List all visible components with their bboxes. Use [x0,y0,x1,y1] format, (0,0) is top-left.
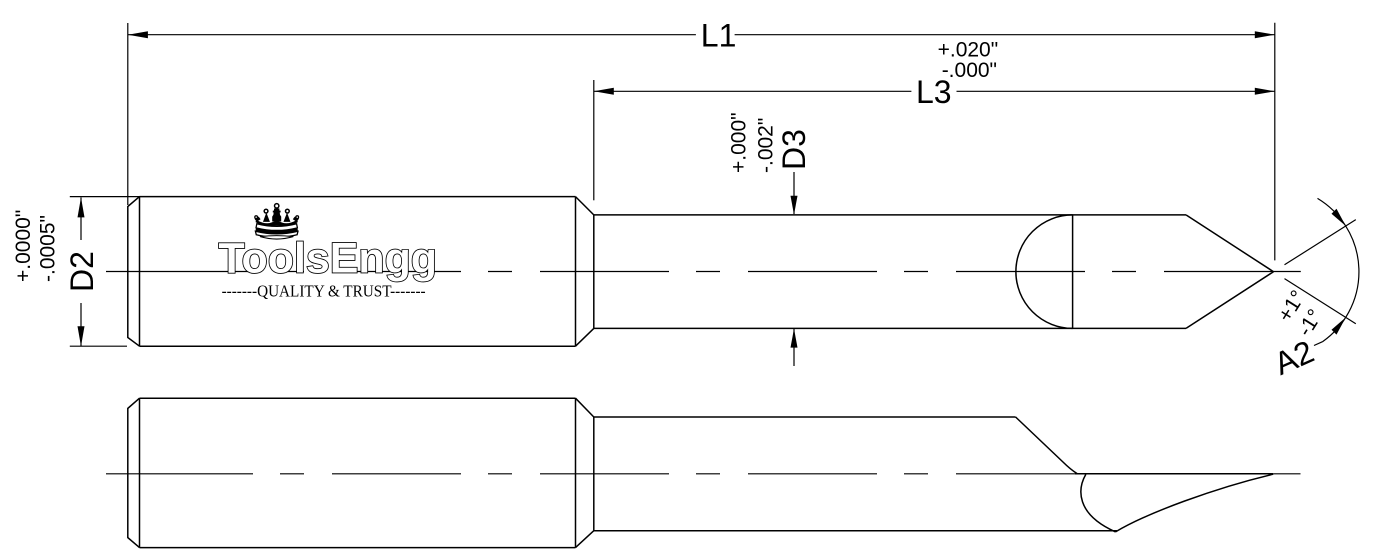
neck top edge [594,214,1186,216]
shank left chamfer line [139,398,141,547]
angle A2 arrow top [1332,209,1346,226]
neck bottom edge [594,530,1117,532]
crown lower white band [255,231,298,237]
shank-neck taper bottom [576,531,594,548]
dimension L3 arrow right [1255,88,1275,95]
svg-text:-.0005": -.0005" [37,215,60,282]
angle A2 leader [1314,342,1323,346]
svg-text:-.000": -.000" [942,59,997,82]
dimension L1 arrow left [128,31,148,38]
dimension L3 extension line left [593,80,595,200]
dimension L3 line [594,90,912,92]
shank-neck taper top [576,197,594,215]
neck start edge [593,215,595,329]
shank left chamfer [128,197,140,347]
crown center prong [272,208,281,221]
angle A2 arc [1318,198,1359,341]
shank top edge [140,397,576,399]
shank left chamfer [128,398,140,547]
crown outer horn right [293,216,299,222]
dimension D2 arrow bottom [78,326,85,346]
logo crown [254,204,299,239]
dimension D3 arrow bottom [791,329,798,348]
dimension D2 line [80,197,82,240]
shank top edge [140,196,576,198]
crown jewel band [255,228,298,234]
point taper bottom [1186,272,1274,329]
top view shank outline [128,197,1274,347]
neck top edge [594,416,1016,418]
svg-text:D3: D3 [776,129,812,170]
svg-text:L1: L1 [701,17,737,53]
svg-text:+.0000": +.0000" [12,210,35,282]
shank bottom edge [140,345,576,347]
svg-text:+.000": +.000" [728,112,751,173]
shank left chamfer line [139,197,141,347]
crown base rim [256,235,297,239]
crown side prong right [283,212,290,221]
flute semicircle chord [1072,215,1074,329]
bottom view centerline [106,473,124,475]
flute end face arc [1081,474,1116,532]
dimension D2 arrow top [78,197,85,217]
centerline top view [106,271,124,273]
crown outer horn left [254,216,260,222]
point taper top [1186,215,1274,272]
svg-text:-.002": -.002" [755,118,778,173]
shank bottom edge [140,547,576,549]
dimension L1 extension line left [127,23,129,205]
svg-text:ToolsEngg: ToolsEngg [219,235,438,283]
crown upper white band [256,224,297,231]
dimension L1 line [128,34,696,36]
dimension L1 extension line right (also L3) [1274,23,1276,261]
crown body swoosh [255,220,297,227]
shank-neck taper top [576,398,594,417]
angle A2 extension line upper [1285,220,1356,265]
bottom view outline [128,398,1273,547]
dimension D3 line top [793,172,795,214]
flat ramp [1016,417,1078,474]
crown center orb [275,204,279,208]
dimension L3 arrow left [594,88,614,95]
dimension D3 line bottom [793,329,795,366]
neck bottom edge [594,327,1186,329]
dimension D3 arrow top [791,196,798,215]
svg-text:-------QUALITY & TRUST-------: -------QUALITY & TRUST------- [222,282,426,301]
shank right edge [575,398,577,547]
crown side prong left [263,212,270,221]
shank-neck taper bottom [576,328,594,346]
angle A2 arrow bottom [1332,317,1346,334]
flute semicircle arc [1016,215,1073,329]
heel curve [1116,474,1274,532]
dimension D2 extension top [70,196,140,198]
crown side pearl left [264,209,268,213]
neck start edge [593,417,595,531]
shank right edge [575,197,577,347]
svg-text:D2: D2 [64,251,100,292]
dimension L1 arrow right [1255,31,1275,38]
dimension D2 extension bottom [70,345,127,347]
flat ground line [1075,473,1273,475]
crown side pearl right [285,209,289,213]
angle A2 extension line lower [1285,279,1356,324]
